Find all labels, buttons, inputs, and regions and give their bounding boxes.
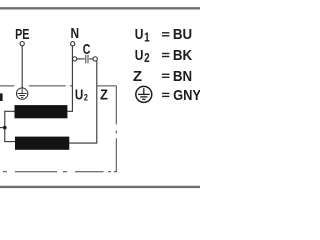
wire Z vertical — [69, 61, 97, 143]
enclosure boundary right dot — [115, 131, 117, 134]
enclosure boundary bottom dot a — [108, 171, 111, 173]
enclosure boundary bottom dash a — [75, 171, 104, 173]
wire capacitor row left — [72, 58, 84, 60]
enclosure boundary bottom dot c — [3, 171, 7, 173]
winding 2 (auxiliary) — [15, 137, 69, 150]
svg-text:C: C — [83, 41, 91, 57]
svg-text:U2: U2 — [75, 86, 88, 103]
legend row4 earth symbol = GNYE — [136, 86, 152, 102]
terminal PE — [20, 42, 24, 46]
svg-text:Z: Z — [133, 68, 142, 85]
enclosure boundary right dash a — [115, 86, 117, 125]
cropped element at left edge — [0, 93, 3, 101]
wire winding2 left stub — [5, 141, 15, 143]
terminal N — [71, 42, 75, 46]
wire left bus vertical — [4, 111, 6, 142]
earth symbol circle PE — [16, 88, 27, 99]
terminal capacitor right — [93, 57, 97, 61]
wire U1 to left edge — [0, 127, 5, 129]
svg-text:N: N — [71, 25, 80, 41]
wire PE vertical — [21, 46, 23, 88]
svg-text:U1: U1 — [135, 26, 150, 45]
svg-text:BK: BK — [173, 47, 193, 64]
junction U1 — [3, 126, 7, 130]
enclosure boundary bottom dash b — [15, 171, 57, 173]
winding 1 (main) — [15, 105, 68, 118]
svg-text:BU: BU — [173, 26, 192, 43]
top figure border — [0, 7, 200, 9]
svg-text:BN: BN — [173, 68, 192, 85]
wire winding1 left stub — [5, 110, 15, 112]
svg-text:U2: U2 — [135, 47, 150, 66]
svg-text:PE: PE — [15, 25, 30, 42]
enclosure boundary top dash b — [29, 85, 66, 87]
wire capacitor row right — [89, 58, 97, 60]
enclosure boundary top dash a — [0, 85, 14, 87]
terminal capacitor left — [73, 57, 77, 61]
enclosure boundary top dot c — [70, 85, 73, 87]
capacitor C plates — [85, 55, 87, 63]
wire N / U2 vertical — [67, 46, 72, 111]
enclosure boundary right dash b — [115, 138, 117, 171]
enclosure boundary top dash d — [97, 85, 117, 87]
svg-text:GNY: GNY — [173, 86, 200, 103]
enclosure boundary bottom corner dash — [114, 171, 117, 173]
svg-text:Z: Z — [100, 87, 108, 103]
bottom figure border — [0, 186, 200, 188]
enclosure boundary bottom dot b — [63, 171, 67, 173]
